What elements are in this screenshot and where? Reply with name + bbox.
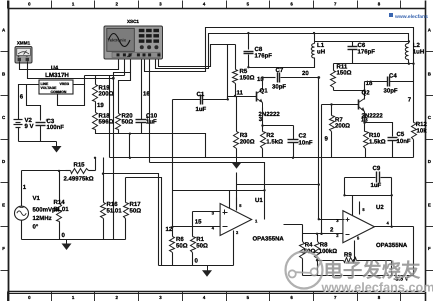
label R15 (73, 162, 85, 169)
wire (85, 75, 125, 77)
svg-text:10k: 10k (417, 128, 428, 135)
svg-text:1uF: 1uF (146, 119, 157, 126)
wire (22, 170, 66, 172)
wire (124, 60, 126, 76)
label R1 (196, 236, 204, 243)
svg-text:R2: R2 (266, 132, 274, 139)
svg-text:30pF: 30pF (272, 84, 286, 91)
resistor R7 (330, 105, 335, 158)
svg-text:C4: C4 (389, 72, 397, 79)
svg-text:19: 19 (97, 102, 104, 109)
node 6 (20, 94, 24, 101)
wire (22, 239, 126, 241)
junction (343, 194, 345, 196)
node 9 (325, 136, 329, 143)
node 15 (195, 218, 202, 225)
resistor R18 (93, 113, 206, 158)
wire (364, 82, 366, 100)
label R8 (320, 242, 328, 249)
svg-text:200Ω: 200Ω (335, 123, 350, 130)
capacitor C4 (365, 77, 414, 87)
label U1 (255, 197, 263, 204)
label 596 (99, 119, 114, 126)
wire (263, 125, 294, 127)
label V1 amp (33, 207, 60, 214)
junction (320, 233, 322, 235)
label C7 30pF (272, 84, 286, 91)
node 20 (302, 70, 309, 77)
svg-text:uH: uH (317, 48, 325, 55)
pin U2 2b (357, 235, 360, 240)
svg-text:XMM1: XMM1 (17, 41, 31, 46)
pin U1 out (255, 219, 258, 224)
svg-text:XSC1: XSC1 (127, 19, 139, 24)
wire (19, 85, 27, 118)
label C6 (358, 42, 366, 49)
label XSC1 (127, 19, 139, 24)
wire (95, 158, 97, 171)
label U4 (51, 66, 59, 72)
svg-text:C5: C5 (397, 131, 405, 138)
svg-text:176pF: 176pF (255, 53, 273, 60)
node 1 (23, 184, 27, 191)
svg-text:L1: L1 (317, 42, 325, 49)
junction (263, 189, 265, 191)
svg-text:10nF: 10nF (397, 138, 411, 145)
svg-text:D: D (428, 159, 431, 164)
label R11 150 (337, 70, 352, 77)
resistor R16 (101, 158, 106, 240)
wire (262, 78, 264, 86)
wire (227, 45, 229, 100)
junction (316, 233, 318, 235)
wire (344, 178, 346, 196)
wire (263, 77, 276, 79)
label R11 (337, 63, 348, 70)
svg-text:30pF: 30pF (384, 88, 398, 95)
label C5 (397, 131, 405, 138)
svg-text:D: D (2, 159, 5, 164)
wire (334, 63, 414, 65)
svg-text:C3: C3 (47, 118, 55, 125)
junction (408, 40, 410, 42)
wire (58, 85, 85, 106)
junction (102, 173, 104, 175)
capacitor C5 (365, 123, 398, 158)
svg-text:VREG: VREG (60, 82, 70, 86)
svg-text:1.5kΩ: 1.5kΩ (369, 139, 386, 146)
op-amp U2 (343, 211, 375, 243)
transistor Q2 (359, 94, 365, 116)
svg-text:R17: R17 (130, 201, 142, 208)
wire (159, 45, 236, 67)
label R15 val (64, 176, 94, 183)
svg-text:Q1: Q1 (260, 87, 269, 94)
wire (319, 219, 345, 221)
junction (318, 183, 320, 185)
svg-text:596Ω: 596Ω (99, 119, 114, 126)
pin U1 5 (239, 203, 242, 208)
svg-text:150Ω: 150Ω (337, 70, 352, 77)
node 19 (97, 102, 104, 109)
pin U2 plus (336, 218, 339, 223)
junction (316, 259, 318, 261)
svg-text:R18: R18 (99, 113, 111, 120)
svg-text:电子发烧友: 电子发烧友 (324, 260, 422, 282)
wire (129, 134, 131, 158)
svg-text:E: E (428, 202, 431, 207)
svg-text:C2: C2 (299, 133, 307, 140)
label R14 (54, 199, 66, 206)
label C7 (276, 67, 284, 74)
junction (227, 98, 229, 100)
junction (94, 157, 96, 159)
svg-text:www.elecfans: www.elecfans (394, 14, 428, 20)
svg-text:50Ω: 50Ω (176, 242, 188, 249)
svg-text:Q2: Q2 (362, 90, 371, 97)
oscilloscope XSC1 (104, 26, 163, 59)
source V1 (15, 171, 29, 240)
label R6 val (176, 242, 188, 249)
svg-text:20: 20 (302, 70, 309, 77)
svg-text:B: B (2, 71, 5, 76)
wire (159, 265, 234, 267)
label R14 val (54, 206, 70, 213)
label U2 (376, 204, 384, 211)
junction (317, 76, 320, 79)
junction (391, 194, 393, 196)
watermark top (389, 13, 428, 20)
svg-text:1uF: 1uF (371, 182, 382, 189)
svg-text:OPA355NA: OPA355NA (376, 242, 408, 249)
svg-text:200Ω: 200Ω (240, 139, 255, 146)
svg-text:11: 11 (237, 90, 244, 97)
wire (249, 58, 315, 68)
label LM317H (45, 72, 69, 79)
label Q1 2N2222 (259, 111, 281, 118)
label C9 1uF (371, 182, 382, 189)
svg-text:C1: C1 (197, 91, 205, 98)
wire (303, 233, 343, 235)
junction (363, 89, 365, 91)
svg-text:50Ω: 50Ω (130, 208, 142, 215)
svg-text:15: 15 (195, 218, 202, 225)
label R10 (369, 132, 381, 139)
wire (109, 76, 111, 158)
svg-text:R12: R12 (416, 121, 428, 128)
pin U1 plus (212, 211, 215, 216)
wire (141, 60, 143, 119)
label L1 (317, 42, 325, 49)
label R7 (335, 116, 343, 123)
svg-text:0°: 0° (33, 224, 39, 231)
junction (292, 157, 294, 159)
resistor R8 (315, 234, 320, 276)
svg-text:R6: R6 (176, 236, 184, 243)
wire (391, 178, 393, 227)
label C5 10nF (397, 138, 411, 145)
ground (52, 142, 62, 153)
wire (364, 112, 366, 132)
wire (126, 178, 162, 266)
wire (315, 41, 409, 43)
capacitor C7 (278, 73, 319, 83)
svg-text:www.elecfans.com: www.elecfans.com (321, 280, 433, 294)
label C2 (299, 133, 307, 140)
node 12 (166, 226, 173, 233)
capacitor C2 (288, 126, 299, 158)
svg-text:12MHz: 12MHz (33, 215, 52, 222)
label L1 uH (317, 48, 325, 55)
pin U2 minus (336, 233, 339, 238)
svg-text:R8: R8 (320, 242, 328, 249)
wire (284, 224, 303, 226)
node 10 (257, 76, 264, 83)
label C3 (47, 118, 55, 125)
svg-text:12: 12 (166, 226, 173, 233)
svg-text:R16: R16 (107, 201, 119, 208)
wire (150, 163, 265, 220)
svg-text:R11: R11 (337, 63, 348, 70)
label L2 1uH (413, 48, 424, 55)
regulator U4 LM317H (39, 80, 73, 94)
wire (413, 227, 415, 276)
capacitor C10 (136, 115, 150, 134)
wire (229, 191, 231, 209)
node 18 (366, 80, 373, 87)
svg-text:F: F (428, 246, 431, 251)
label Q1 (260, 87, 269, 94)
wire (391, 261, 393, 276)
resistor R5 (233, 45, 238, 97)
wire (19, 141, 57, 143)
resistor R6 (170, 237, 175, 266)
wire (173, 226, 221, 228)
wire (84, 76, 86, 85)
label C1 1uF (196, 106, 207, 113)
svg-text:R19: R19 (99, 85, 111, 92)
svg-text:R9: R9 (344, 251, 352, 258)
svg-text:R15: R15 (73, 162, 85, 169)
junction (412, 63, 414, 65)
resistor R19 (93, 85, 98, 113)
battery V2 (14, 118, 23, 142)
label R8 val (319, 248, 337, 255)
junction (363, 122, 365, 124)
label R18 (99, 113, 111, 120)
wire (27, 85, 41, 121)
svg-text:150Ω: 150Ω (240, 75, 255, 82)
ground (62, 240, 72, 251)
junction (247, 32, 249, 34)
svg-text:B: B (428, 71, 431, 76)
svg-text:F: F (2, 246, 5, 251)
label R20 (122, 113, 134, 120)
wire (303, 275, 414, 277)
capacitor C9 (345, 172, 392, 183)
inductor L2 (405, 44, 408, 60)
label R5 (240, 68, 248, 75)
label V1 (33, 195, 41, 202)
label R17 val (130, 208, 142, 215)
junction (234, 95, 236, 97)
svg-text:176pF: 176pF (358, 48, 376, 55)
wire (95, 76, 97, 85)
label R16 (107, 201, 119, 208)
ground (202, 266, 212, 277)
resistor R12 (412, 123, 417, 158)
wire (236, 173, 238, 211)
resistor R1 (191, 237, 196, 266)
wire (172, 100, 174, 237)
wire (114, 60, 131, 240)
junction (112, 77, 115, 80)
label 200 (99, 91, 114, 98)
svg-text:C7: C7 (276, 67, 284, 74)
resistor R10 (364, 132, 369, 158)
resistor R3 (234, 97, 239, 158)
capacitor C3 (36, 118, 49, 142)
svg-text:9 V: 9 V (25, 123, 34, 130)
svg-text:C8: C8 (255, 46, 263, 53)
capacitor C8 (244, 34, 254, 68)
resistor R9 (318, 258, 392, 263)
svg-text:C9: C9 (373, 165, 381, 172)
wire (192, 212, 194, 237)
label R3 (240, 132, 248, 139)
label R1 val (196, 242, 208, 249)
svg-text:R3: R3 (240, 132, 248, 139)
junction (261, 76, 263, 78)
label R12 (416, 121, 428, 128)
svg-text:R20: R20 (122, 113, 134, 120)
wire (345, 195, 392, 197)
label L2 (413, 42, 421, 49)
label R12 10k (417, 128, 428, 135)
label V1 freq (33, 215, 52, 222)
svg-text:U2: U2 (376, 204, 384, 211)
resistor R2 (261, 132, 266, 158)
wire (173, 190, 265, 192)
svg-text:R1: R1 (196, 236, 204, 243)
label U2 type (376, 242, 408, 249)
label 100nF (47, 124, 65, 131)
label R3 200 (240, 139, 255, 146)
label R4 val (304, 248, 316, 255)
node 7 (408, 97, 412, 104)
source V3 (394, 277, 409, 283)
svg-text:C6: C6 (358, 42, 366, 49)
wire (408, 60, 410, 64)
wire (318, 78, 320, 220)
wire (145, 28, 414, 123)
label R7 200 (335, 123, 350, 130)
label Q2 (362, 90, 371, 97)
resistor R15 (66, 169, 96, 174)
label R4 (305, 242, 313, 249)
label 50 (122, 119, 134, 126)
wire (236, 198, 238, 210)
wire (354, 241, 356, 261)
svg-text:100nF: 100nF (47, 124, 65, 131)
label C8 176pF (255, 53, 273, 60)
svg-text:Tektronix: Tektronix (108, 38, 127, 43)
svg-text:50Ω: 50Ω (196, 242, 208, 249)
ground (232, 158, 242, 169)
svg-text:10nF: 10nF (299, 140, 313, 147)
label 9V (25, 123, 34, 130)
resistor R11 (331, 64, 336, 91)
junction (129, 133, 131, 135)
label 1uF (146, 119, 157, 126)
svg-text:OPA355NA: OPA355NA (253, 236, 285, 243)
label C9 (373, 165, 381, 172)
pin U2 out (387, 220, 390, 225)
wire (156, 34, 409, 69)
label R2 (266, 132, 274, 139)
svg-text:200Ω: 200Ω (99, 91, 114, 98)
wire (352, 196, 354, 216)
multimeter XMM1 (15, 47, 32, 64)
svg-text:V2: V2 (25, 117, 33, 124)
capacitor C1 (173, 95, 228, 105)
svg-text:50Ω: 50Ω (122, 119, 134, 126)
transistor Q1 (257, 86, 263, 108)
svg-text:R14: R14 (54, 199, 66, 206)
wire (110, 157, 414, 159)
wire (262, 108, 264, 132)
label R16 val (107, 208, 123, 215)
pin U1 minus (212, 225, 215, 230)
wire (228, 97, 257, 100)
label C2 10nF (299, 140, 313, 147)
junction (408, 63, 410, 65)
svg-text:LM317H: LM317H (45, 72, 69, 79)
label C10 (146, 113, 158, 120)
node 2 (330, 226, 334, 233)
svg-text:R4: R4 (305, 242, 313, 249)
node 11 (237, 90, 244, 97)
svg-text:+: + (18, 54, 20, 58)
junction (391, 226, 393, 228)
svg-text:1uF: 1uF (196, 106, 207, 113)
label R19 (99, 85, 111, 92)
label C4 (389, 72, 397, 79)
junction (261, 124, 263, 126)
wire (20, 60, 119, 70)
wire (233, 231, 235, 266)
svg-text:L2: L2 (413, 42, 421, 49)
inductor L1 (311, 32, 315, 58)
node 3 (259, 116, 263, 123)
svg-text:R5: R5 (240, 68, 248, 75)
svg-text:R10: R10 (369, 132, 381, 139)
wire (359, 202, 361, 215)
wire (193, 211, 221, 213)
svg-text:COMMON: COMMON (51, 90, 67, 94)
label R10 1.5k (369, 139, 386, 146)
label U1 type (253, 236, 285, 243)
label C1 (197, 91, 205, 98)
wire (149, 60, 151, 163)
label C6 176pF (358, 48, 376, 55)
svg-text:−: − (26, 54, 28, 58)
junction (247, 66, 249, 68)
node 0 left (62, 232, 66, 239)
resistor R14 (57, 171, 62, 240)
label Q2 2N2222 (362, 112, 384, 119)
wire (237, 184, 319, 186)
